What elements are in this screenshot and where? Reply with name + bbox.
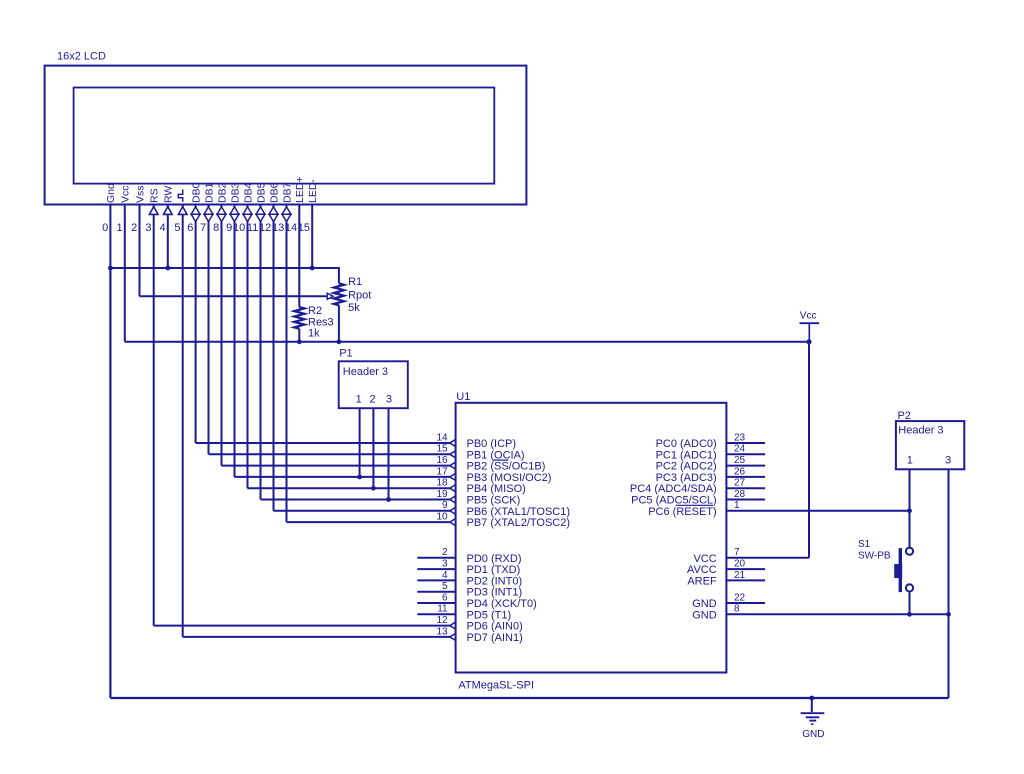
U1 pin 10 PB7 (XTAL2/TOSC2) <box>436 512 570 530</box>
svg-text:8: 8 <box>734 604 740 615</box>
LCD pin 10 DB4 <box>233 182 254 488</box>
svg-text:5: 5 <box>174 222 180 234</box>
svg-text:28: 28 <box>734 489 746 500</box>
junction R2 bottom <box>297 339 302 344</box>
P1 pin3 wire <box>388 408 390 499</box>
U1 pin 8 GND <box>692 604 948 622</box>
svg-text:8: 8 <box>213 222 219 234</box>
header P1 body <box>339 361 408 408</box>
IC U1 part name ATMegaSL-SPI <box>458 679 534 691</box>
wire ground rail y268 <box>110 267 339 269</box>
U1 pin 1 PC6 (RESET) <box>648 500 909 518</box>
junction S1 / GND row <box>907 612 912 617</box>
LCD pin 1 Vcc <box>116 185 131 341</box>
svg-text:PB6 (XTAL1/TOSC1): PB6 (XTAL1/TOSC1) <box>467 506 571 518</box>
svg-text:6: 6 <box>187 222 193 234</box>
P1 pin2 wire <box>372 408 374 488</box>
svg-text:PC6 (RESET): PC6 (RESET) <box>648 506 716 518</box>
svg-text:DB6: DB6 <box>268 182 280 203</box>
svg-text:PD5 (T1): PD5 (T1) <box>467 609 512 621</box>
svg-text:17: 17 <box>436 466 448 477</box>
svg-text:11: 11 <box>437 604 448 615</box>
U1 pin 20 AVCC <box>687 559 765 577</box>
svg-text:4: 4 <box>159 222 165 234</box>
svg-text:PD2 (INT0): PD2 (INT0) <box>467 575 523 587</box>
svg-text:11: 11 <box>247 222 258 234</box>
wire ground bus bottom <box>110 697 948 699</box>
LCD pin 15 LED- <box>298 179 319 268</box>
U1 pin 2 PD0 (RXD) <box>417 547 521 565</box>
wire ground bus left drop <box>109 268 111 698</box>
LCD display window <box>74 88 495 184</box>
wire ground bus right rise <box>948 614 950 698</box>
P1 pin 2 number <box>370 393 376 405</box>
svg-text:15: 15 <box>436 444 448 455</box>
svg-text:R2: R2 <box>308 305 322 317</box>
label GND <box>802 729 824 740</box>
svg-text:DB3: DB3 <box>229 182 241 203</box>
wire DB4 to PB4 <box>248 487 451 489</box>
potentiometer R1 body <box>334 283 344 305</box>
svg-text:24: 24 <box>734 444 746 455</box>
U1 pin 13 PD7 (AIN1) <box>436 626 522 644</box>
junction ground symbol <box>809 696 814 701</box>
P2 pin 3 number <box>945 455 951 467</box>
svg-text:13: 13 <box>436 626 448 637</box>
svg-text:2: 2 <box>131 222 137 234</box>
P1 pin 3 number <box>386 393 392 405</box>
svg-text:2: 2 <box>442 547 448 558</box>
header P1 label <box>343 366 388 378</box>
svg-text:U1: U1 <box>456 391 470 403</box>
wire Vcc down to U1 pin7 <box>808 342 810 558</box>
switch S1 button cap <box>894 564 902 578</box>
svg-text:12: 12 <box>436 615 448 626</box>
U1 pin 28 PC5 (ADC5/SCL) <box>631 489 765 507</box>
svg-text:PC1 (ADC1): PC1 (ADC1) <box>656 449 717 461</box>
svg-text:7: 7 <box>734 547 740 558</box>
wire DB1 to PB1 <box>209 453 451 455</box>
svg-text:1k: 1k <box>308 328 320 340</box>
svg-text:5k: 5k <box>348 302 360 314</box>
label R2 value 1k <box>308 328 320 340</box>
svg-text:PB5 (SCK): PB5 (SCK) <box>467 495 521 507</box>
svg-text:AREF: AREF <box>687 575 717 587</box>
svg-text:6: 6 <box>442 592 448 603</box>
svg-text:1: 1 <box>116 222 122 234</box>
svg-text:3: 3 <box>386 393 392 405</box>
svg-text:1: 1 <box>907 455 913 467</box>
svg-text:7: 7 <box>200 222 206 234</box>
U1 pin 21 AREF <box>687 570 765 588</box>
svg-text:DB7: DB7 <box>281 182 293 203</box>
LCD pin 4 RW <box>159 186 174 268</box>
junction P2 pin3 / GND row <box>946 612 951 617</box>
LCD pin 5 E <box>174 190 187 637</box>
svg-text:RW: RW <box>163 186 175 203</box>
svg-text:GND: GND <box>802 729 824 740</box>
junction LED- pin <box>310 266 315 271</box>
U1 pin 27 PC4 (ADC4/SDA) <box>630 478 765 496</box>
overline RESET on PC6 <box>676 504 713 506</box>
LCD module outer body <box>45 66 527 205</box>
svg-text:10: 10 <box>233 222 245 234</box>
wire DB6 to PB6 <box>274 510 451 512</box>
U1 pin 19 PB5 (SCK) <box>436 489 520 507</box>
svg-text:Rpot: Rpot <box>348 290 371 302</box>
wire R1 bottom lead <box>338 305 340 342</box>
svg-text:PD0 (RXD): PD0 (RXD) <box>467 553 522 565</box>
svg-text:PB0 (ICP): PB0 (ICP) <box>467 438 517 450</box>
U1 pin 11 PD5 (T1) <box>417 604 511 622</box>
junction RW pin <box>165 266 170 271</box>
switch S1 bottom wire <box>909 591 911 614</box>
svg-text:PD4 (XCK/T0): PD4 (XCK/T0) <box>467 598 537 610</box>
U1 pin 17 PB3 (MOSI/OC2) <box>436 466 551 484</box>
wire R1 top lead <box>338 267 340 283</box>
U1 pin 25 PC2 (ADC2) <box>656 455 766 473</box>
junction Vcc symbol <box>806 339 811 344</box>
svg-text:PC0 (ADC0): PC0 (ADC0) <box>656 438 717 450</box>
svg-text:0: 0 <box>102 222 108 234</box>
wire Vcc rail y342 <box>125 341 809 343</box>
svg-text:PD3 (INT1): PD3 (INT1) <box>467 587 523 599</box>
svg-text:26: 26 <box>734 466 746 477</box>
svg-text:P1: P1 <box>339 348 352 360</box>
svg-text:LED-: LED- <box>307 179 319 203</box>
LCD pin 2 Vss <box>131 185 146 296</box>
LCD pin 9 DB3 <box>226 182 241 476</box>
svg-text:DB1: DB1 <box>203 182 215 203</box>
junction R1 bottom <box>337 339 342 344</box>
svg-text:25: 25 <box>734 455 746 466</box>
R1 wiper arrow <box>327 293 333 299</box>
LCD pin 8 DB2 <box>213 182 228 465</box>
svg-text:PC2 (ADC2): PC2 (ADC2) <box>656 461 717 473</box>
svg-text:VCC: VCC <box>693 553 716 565</box>
U1 pin 26 PC3 (ADC3) <box>656 466 766 484</box>
P1 pin1 wire <box>359 408 361 477</box>
svg-text:S1: S1 <box>858 539 871 550</box>
svg-text:GND: GND <box>692 609 717 621</box>
svg-text:1: 1 <box>734 500 740 511</box>
svg-text:LED+: LED+ <box>294 176 306 203</box>
svg-text:23: 23 <box>734 432 746 443</box>
svg-text:19: 19 <box>436 489 448 500</box>
svg-text:3: 3 <box>945 455 951 467</box>
LCD pin 11 DB5 <box>247 182 267 499</box>
svg-text:3: 3 <box>145 222 151 234</box>
svg-text:Header 3: Header 3 <box>343 366 388 378</box>
svg-text:Vcc: Vcc <box>120 185 132 203</box>
U1 pin 18 PB4 (MISO) <box>436 478 525 496</box>
svg-text:22: 22 <box>734 592 746 603</box>
svg-text:3: 3 <box>442 559 448 570</box>
junction P1 pin3 / PB5 <box>386 497 391 502</box>
label R2 type Res3 <box>308 317 334 329</box>
LCD pin 12 DB6 <box>259 182 280 510</box>
U1 pin 15 PB1 (OCIA) <box>436 444 524 462</box>
resistor R2 body <box>294 307 304 329</box>
wire RS to PD6 <box>154 625 451 627</box>
label R1 value 5k <box>348 302 360 314</box>
svg-text:Vss: Vss <box>134 185 146 203</box>
svg-text:RS: RS <box>149 188 161 203</box>
header P1 designator <box>339 348 352 360</box>
svg-text:9: 9 <box>226 222 232 234</box>
U1 pin 9 PB6 (XTAL1/TOSC1) <box>442 500 570 518</box>
wire DB2 to PB2 <box>222 465 451 467</box>
svg-text:ATMegaSL-SPI: ATMegaSL-SPI <box>458 679 534 691</box>
U1 pin 12 PD6 (AIN0) <box>436 615 522 633</box>
svg-text:15: 15 <box>298 222 310 234</box>
P1 pin 1 number <box>356 393 362 405</box>
LCD pin 7 DB1 <box>200 182 215 454</box>
U1 pin 3 PD1 (TXD) <box>417 559 520 577</box>
LCD pin 13 DB7 <box>272 182 293 522</box>
wire R2 bottom lead <box>298 329 300 342</box>
svg-text:DB5: DB5 <box>255 182 267 203</box>
svg-text:4: 4 <box>442 570 448 581</box>
Vcc power symbol <box>800 311 820 342</box>
wire E to PD7 <box>183 636 451 638</box>
svg-text:PB4 (MISO): PB4 (MISO) <box>467 483 526 495</box>
svg-text:PB2 (SS/OC1B): PB2 (SS/OC1B) <box>467 461 546 473</box>
svg-text:20: 20 <box>734 559 746 570</box>
svg-text:SW-PB: SW-PB <box>858 550 891 561</box>
svg-text:GND: GND <box>692 598 717 610</box>
label R1 value Rpot <box>348 290 371 302</box>
svg-text:DB0: DB0 <box>190 182 202 203</box>
junction P2 pin1 / RESET <box>907 508 912 513</box>
svg-text:PB7 (XTAL2/TOSC2): PB7 (XTAL2/TOSC2) <box>467 517 571 529</box>
LCD pin 3 RS <box>145 188 160 625</box>
header P2 label <box>898 424 943 436</box>
header P2 body <box>896 421 964 469</box>
wire DB3 to PB3 <box>235 476 451 478</box>
LCD pin 14 LED+ <box>285 176 306 307</box>
wire DB7 to PB7 <box>287 521 451 523</box>
svg-text:DB2: DB2 <box>216 182 228 203</box>
P2 pin3 wire <box>948 469 950 698</box>
svg-text:PD6 (AIN0): PD6 (AIN0) <box>467 621 523 633</box>
IC U1 body <box>456 403 727 673</box>
LCD module 16x2 LCD label <box>57 51 106 63</box>
U1 pin 7 VCC <box>693 547 809 565</box>
svg-text:16x2 LCD: 16x2 LCD <box>57 51 106 63</box>
svg-text:27: 27 <box>734 478 746 489</box>
U1 pin 22 GND <box>692 592 765 610</box>
svg-text:PC4 (ADC4/SDA): PC4 (ADC4/SDA) <box>630 483 717 495</box>
U1 pin 24 PC1 (ADC1) <box>656 444 766 462</box>
svg-text:9: 9 <box>442 500 448 511</box>
svg-text:16: 16 <box>436 455 448 466</box>
svg-text:Header 3: Header 3 <box>898 424 943 436</box>
switch S1 top contact <box>906 548 913 555</box>
svg-text:Vcc: Vcc <box>800 311 817 322</box>
switch S1 bottom contact <box>906 584 913 591</box>
svg-text:21: 21 <box>734 570 746 581</box>
svg-text:R1: R1 <box>348 276 362 288</box>
wire Vss contrast to wiper <box>140 295 327 297</box>
U1 pin 16 PB2 (SS/OC1B) <box>436 455 545 473</box>
P2 pin1 wire <box>909 469 911 547</box>
label R2 <box>308 305 322 317</box>
svg-text:18: 18 <box>436 478 448 489</box>
LCD pin 0 Gnd <box>102 183 117 698</box>
switch S1 actuator bar <box>899 548 902 592</box>
U1 pin 14 PB0 (ICP) <box>436 432 516 450</box>
svg-text:PC3 (ADC3): PC3 (ADC3) <box>656 472 717 484</box>
svg-text:14: 14 <box>285 222 297 234</box>
svg-text:1: 1 <box>356 393 362 405</box>
svg-text:PD1 (TXD): PD1 (TXD) <box>467 564 521 576</box>
svg-text:13: 13 <box>272 222 284 234</box>
svg-text:14: 14 <box>436 432 448 443</box>
IC U1 designator <box>456 391 470 403</box>
junction Gnd pin <box>108 266 113 271</box>
wire DB0 to PB0 <box>196 442 451 444</box>
svg-text:Gnd: Gnd <box>105 183 117 203</box>
wire DB5 to PB5 <box>261 499 451 501</box>
U1 pin 23 PC0 (ADC0) <box>656 432 766 450</box>
U1 pin 5 PD3 (INT1) <box>417 581 522 599</box>
label R1 <box>348 276 362 288</box>
junction P1 pin1 / PB3 <box>357 475 362 480</box>
svg-text:12: 12 <box>259 222 271 234</box>
svg-text:DB4: DB4 <box>242 182 254 203</box>
svg-text:2: 2 <box>370 393 376 405</box>
switch S1 designator <box>858 539 871 550</box>
overline SS on PB2 <box>494 459 509 461</box>
junction P1 pin2 / PB4 <box>371 486 376 491</box>
switch S1 type SW-PB <box>858 550 891 561</box>
ground symbol GND <box>801 698 825 725</box>
U1 pin 4 PD2 (INT0) <box>417 570 522 588</box>
svg-text:PB3 (MOSI/OC2): PB3 (MOSI/OC2) <box>467 472 552 484</box>
svg-text:PD7 (AIN1): PD7 (AIN1) <box>467 632 523 644</box>
svg-text:5: 5 <box>442 581 448 592</box>
P2 pin 1 number <box>907 455 913 467</box>
U1 pin 6 PD4 (XCK/T0) <box>417 592 536 610</box>
header P2 designator <box>898 410 911 422</box>
svg-text:10: 10 <box>436 512 448 523</box>
LCD pin 6 DB0 <box>187 182 202 443</box>
svg-text:AVCC: AVCC <box>687 564 717 576</box>
